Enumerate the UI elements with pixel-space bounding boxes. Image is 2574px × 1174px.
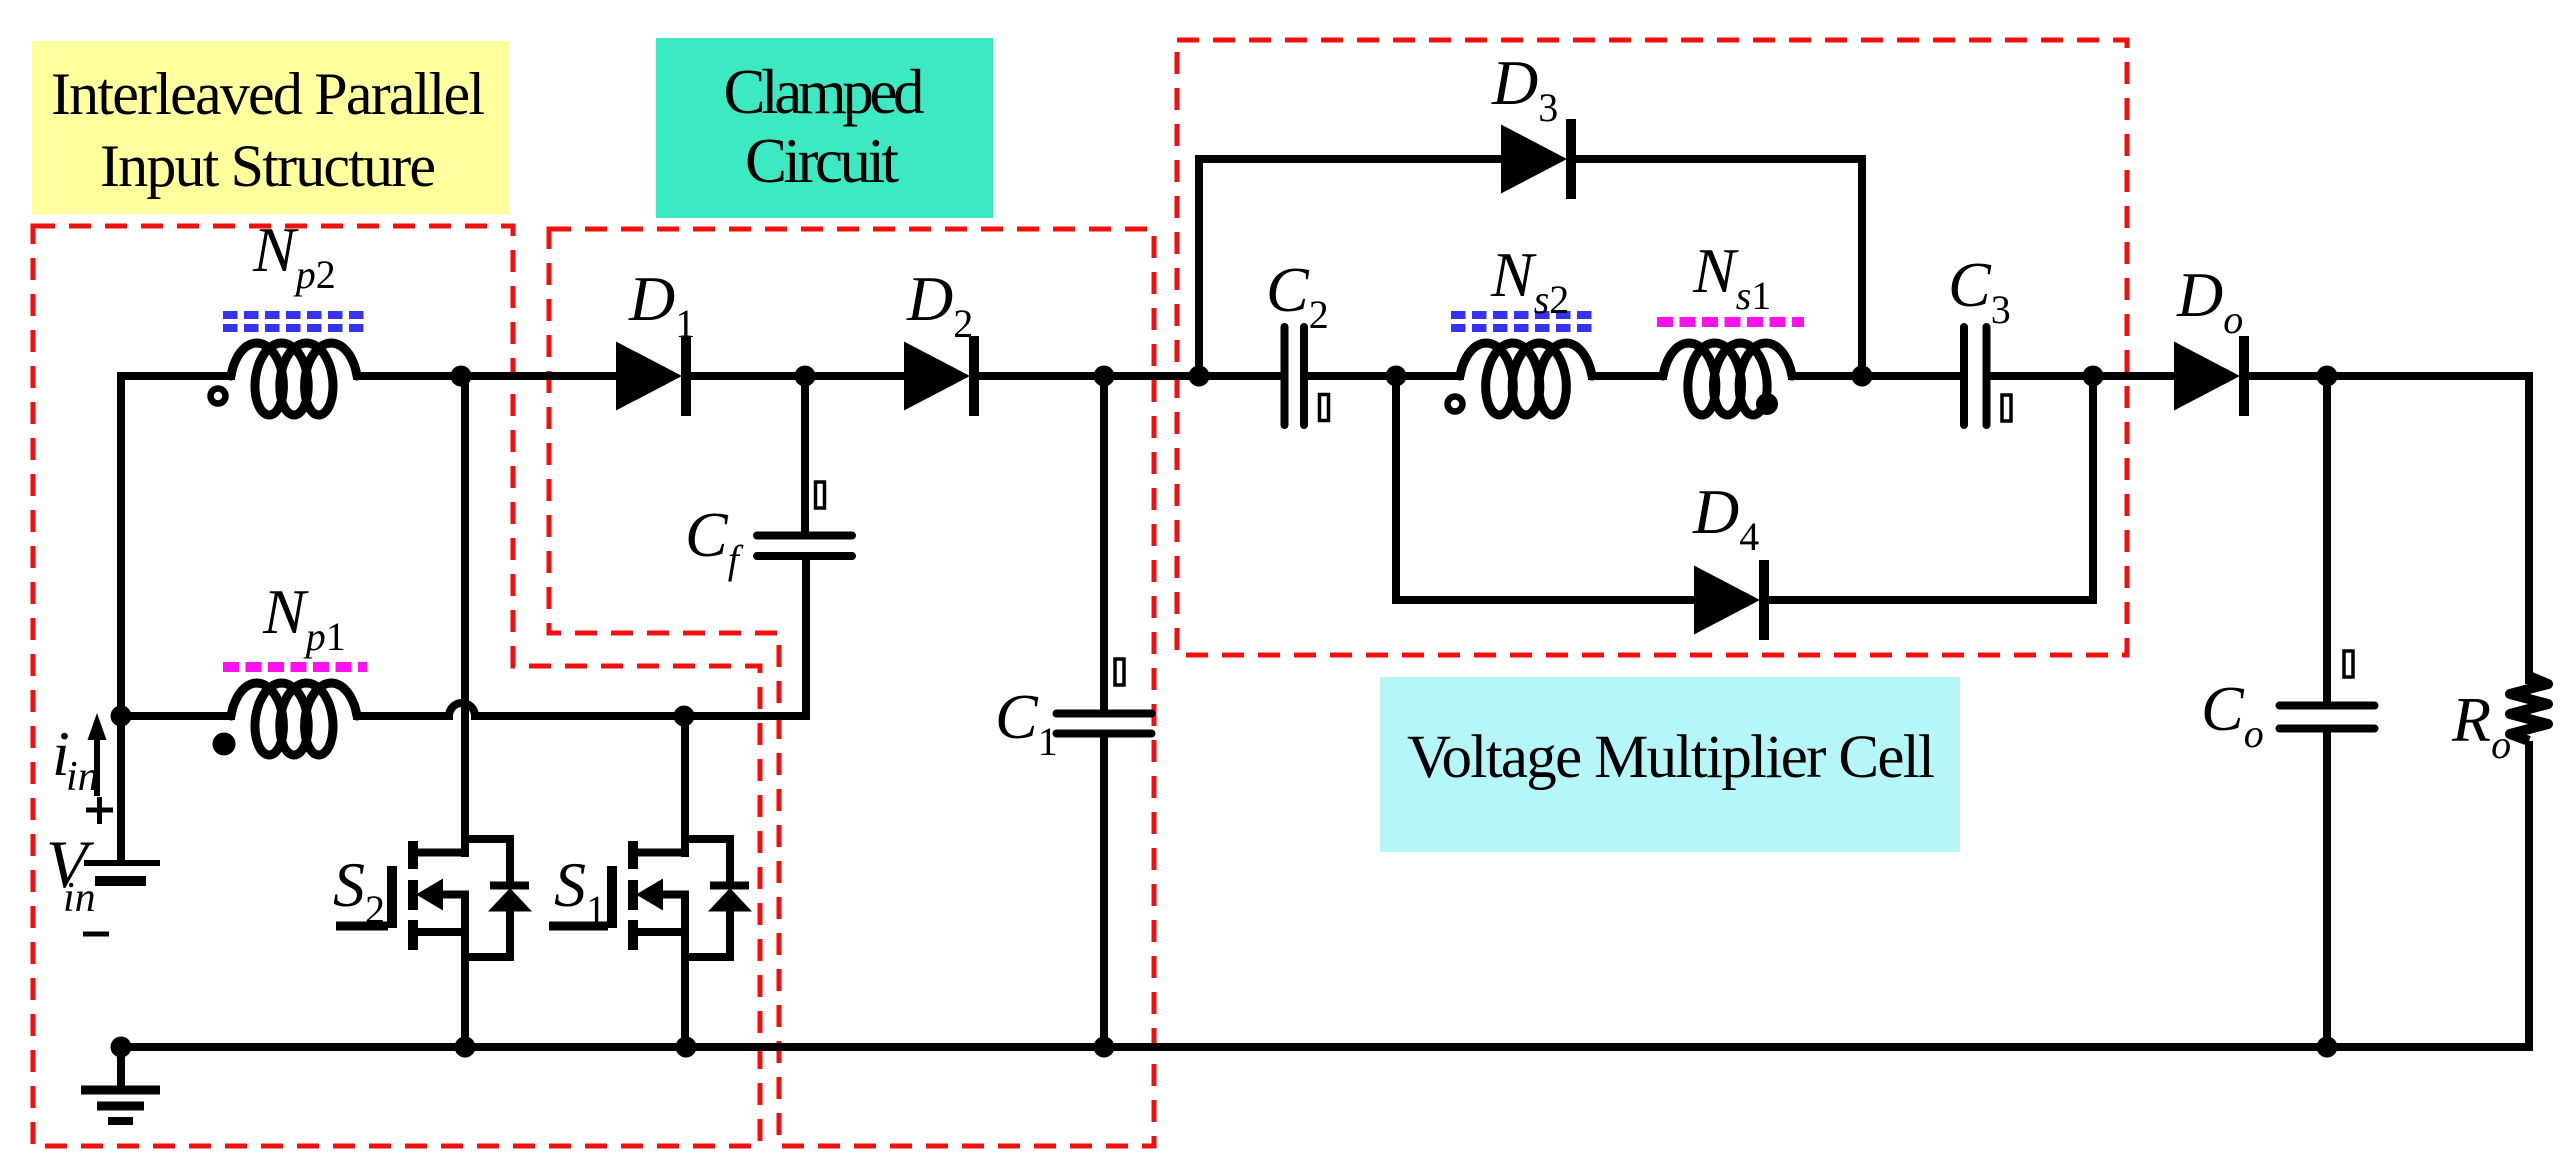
- wire: output right vertical into Ro: [2525, 372, 2533, 684]
- svg-text:Circuit: Circuit: [745, 126, 899, 196]
- wire: C2 right plate to Ns2: [1304, 372, 1464, 380]
- node H: output / Co: [2317, 366, 2338, 387]
- wire: D1 cathode to D2 anode: [688, 372, 905, 380]
- node I: Vin+ / Np1: [111, 706, 132, 727]
- dashed region box: interleaved parallel input structure: [33, 226, 760, 1146]
- wire: D4 bottom branch: [1392, 596, 1698, 604]
- diode D2: [904, 263, 979, 416]
- wire: Co top lead: [2323, 376, 2331, 707]
- diode Do (output): [2174, 259, 2249, 416]
- wire: left input vertical (Vin branch): [117, 372, 125, 864]
- capacitor Cf: [685, 482, 852, 582]
- ground: [81, 1047, 160, 1121]
- svg-text:Clamped: Clamped: [724, 57, 925, 127]
- transistor S1 (MOSFET with body diode): [549, 712, 752, 1047]
- svg-text:in: in: [66, 754, 99, 800]
- svg-text:Input Structure: Input Structure: [100, 133, 436, 199]
- svg-text:Interleaved Parallel: Interleaved Parallel: [51, 61, 485, 127]
- inductor Ns1 (secondary winding, magenta phasing): [1657, 235, 1804, 415]
- node F: Ns1 out / D3 cathode: [1852, 366, 1873, 387]
- node G: C3 out / D4 cathode: [2083, 366, 2104, 387]
- wire: Np1 to S1 drain and Cf corner with jump over S2 drain: [353, 560, 806, 716]
- junction: S2 source at ground bus: [455, 1037, 476, 1058]
- wire: C1 bottom lead to ground bus: [1100, 733, 1108, 1047]
- capacitor Co (output): [2201, 651, 2375, 756]
- wire: Do cathode to output corner: [2242, 372, 2533, 380]
- wire: Np2 output to D1 anode: [353, 372, 618, 380]
- wire: D4 branch right vertical: [2089, 376, 2097, 600]
- transistor S2 (MOSFET with body diode): [333, 372, 532, 1047]
- node C: D2 out / C1: [1094, 366, 1115, 387]
- wire: C3 right plate to Do anode: [1986, 372, 2179, 380]
- junction: S1 source at ground bus: [676, 1037, 697, 1058]
- capacitor C3: [1948, 249, 2011, 425]
- label box: Clamped Circuit: [656, 38, 993, 218]
- svg-text:in: in: [63, 875, 96, 921]
- wire: C1 top lead: [1100, 376, 1108, 715]
- diode D4: [1692, 476, 1769, 640]
- capacitor C1: [995, 659, 1152, 764]
- dashed region box: clamped circuit: [549, 229, 1154, 1146]
- node D: C2 in / D3 anode branch: [1189, 366, 1210, 387]
- wire: Ro bottom to ground bus: [2525, 741, 2533, 1051]
- diode D1: [616, 263, 695, 416]
- inductor Np1 (coupled winding, magenta phasing): [213, 576, 368, 756]
- resistor Ro: [2451, 676, 2548, 767]
- wire: D3 branch left vertical: [1195, 155, 1203, 376]
- wire: Co bottom lead to ground bus: [2323, 727, 2331, 1047]
- junction: Co at ground bus: [2317, 1037, 2338, 1058]
- junction: Vin- at ground bus: [111, 1037, 132, 1058]
- inductor Ns2 (secondary winding, blue phasing): [1448, 239, 1598, 415]
- wire: D2 cathode to C2 left plate: [972, 372, 1284, 380]
- label box: Voltage Multiplier Cell: [1380, 677, 1960, 852]
- svg-text:Voltage Multiplier Cell: Voltage Multiplier Cell: [1407, 724, 1935, 791]
- wire: Ns2 to Ns1: [1588, 372, 1667, 380]
- current arrow iin: [52, 713, 107, 800]
- source Vin (battery): [46, 797, 160, 934]
- wire: Ns1 to C3 left plate: [1788, 372, 1964, 380]
- wire: Np1 node from left vertical to jump: [121, 712, 235, 720]
- label box: Interleaved Parallel Input Structure: [32, 41, 509, 214]
- dashed region box: voltage multiplier cell: [1177, 40, 2127, 655]
- diode D3: [1491, 47, 1576, 199]
- node J: Np1 / S1 drain: [674, 706, 695, 727]
- wire: D3 branch right vertical: [1858, 155, 1866, 376]
- inductor Np2 (coupled winding, blue phasing): [211, 214, 368, 415]
- wire: ground bus: [117, 1043, 2533, 1051]
- junction: C1 at ground bus: [1094, 1037, 1115, 1058]
- wire: Cf top lead to D1-D2 node: [801, 376, 809, 537]
- wire: D4 branch left vertical: [1392, 376, 1400, 604]
- capacitor C2: [1266, 254, 1329, 425]
- node E: C2 out / D4 anode branch: [1386, 366, 1407, 387]
- node B: D1/D2/Cf: [795, 366, 816, 387]
- wire: main top node from input corner to Np2: [121, 372, 235, 380]
- wire: D3 top branch: [1195, 155, 1505, 163]
- node A: Np2/D1/S2 drain: [451, 366, 472, 387]
